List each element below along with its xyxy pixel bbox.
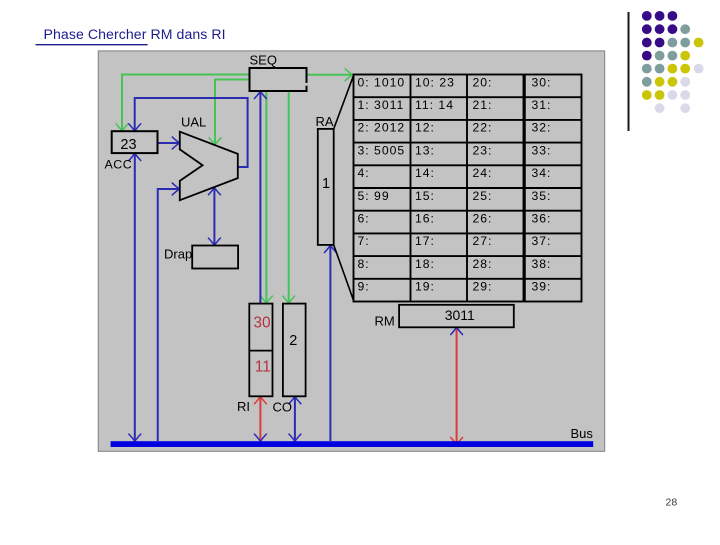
svg-text:7:: 7: xyxy=(358,234,370,248)
svg-text:1: 3011: 1: 3011 xyxy=(358,98,405,112)
svg-text:33:: 33: xyxy=(532,143,552,157)
wire: bus to RA (blue B8) xyxy=(329,246,331,441)
svg-text:RM: RM xyxy=(375,314,395,329)
svg-text:Drap: Drap xyxy=(164,247,192,262)
wire: RM to bus (red R2) xyxy=(456,328,458,444)
op-amp/ALU UAL polygon xyxy=(180,132,238,201)
wire: ACC to bus bidirectional (blue B3) xyxy=(134,154,136,440)
svg-text:23: 23 xyxy=(120,137,136,153)
svg-text:11: 11 xyxy=(255,359,271,376)
svg-text:23:: 23: xyxy=(473,143,493,157)
svg-text:3: 5005: 3: 5005 xyxy=(358,143,406,157)
svg-text:4:: 4: xyxy=(358,166,370,180)
svg-text:ACC: ACC xyxy=(105,158,133,172)
svg-text:9:: 9: xyxy=(358,280,370,294)
svg-text:12:: 12: xyxy=(415,121,435,135)
wire: ACC to UAL upper input (blue B2) xyxy=(158,142,179,144)
svg-text:30: 30 xyxy=(253,315,271,332)
svg-text:1: 1 xyxy=(322,176,330,192)
svg-text:18:: 18: xyxy=(415,257,435,271)
svg-text:Phase Chercher RM dans RI: Phase Chercher RM dans RI xyxy=(44,26,226,42)
svg-text:20:: 20: xyxy=(473,75,493,89)
svg-text:14:: 14: xyxy=(415,166,435,180)
svg-text:28:: 28: xyxy=(473,257,493,271)
svg-text:16:: 16: xyxy=(415,212,435,226)
memory table cell values xyxy=(358,75,552,293)
svg-text:RA: RA xyxy=(316,114,334,129)
svg-text:38:: 38: xyxy=(532,257,552,271)
svg-text:3011: 3011 xyxy=(445,307,475,323)
wire: CO to bus bidirectional (blue B7) xyxy=(294,397,296,440)
register CO box xyxy=(283,304,306,397)
svg-text:35:: 35: xyxy=(532,189,552,203)
wire: UAL output to ACC (blue B1) xyxy=(135,98,248,167)
svg-text:34:: 34: xyxy=(532,166,552,180)
wire: SEQ to CO (green G5) xyxy=(288,91,290,302)
svg-text:26:: 26: xyxy=(473,212,493,226)
register RI box xyxy=(249,304,272,397)
svg-text:RI: RI xyxy=(237,399,250,414)
svg-text:21:: 21: xyxy=(473,98,493,112)
svg-text:29:: 29: xyxy=(473,280,493,294)
svg-text:0: 1010: 0: 1010 xyxy=(358,75,406,89)
memory table xyxy=(354,75,582,302)
diagram panel background xyxy=(98,51,604,451)
decorative vertical rule xyxy=(628,12,630,131)
register RA box xyxy=(318,129,334,245)
svg-text:28: 28 xyxy=(666,497,678,509)
register ACC box xyxy=(112,131,158,153)
svg-text:8:: 8: xyxy=(358,257,370,271)
RI split line xyxy=(249,350,272,352)
svg-text:19:: 19: xyxy=(415,280,435,294)
svg-text:36:: 36: xyxy=(532,212,552,226)
svg-text:CO: CO xyxy=(273,400,293,415)
register RM box xyxy=(399,305,514,328)
funnel line memory to RA top xyxy=(334,75,354,129)
svg-text:39:: 39: xyxy=(532,280,552,294)
wire: SEQ to UAL (green G2) xyxy=(215,80,250,145)
wire: bus to RI (red R1) xyxy=(259,397,261,440)
register SEQ box xyxy=(250,68,307,91)
svg-text:22:: 22: xyxy=(473,121,493,135)
wire: bus to UAL lower input (blue B4) xyxy=(158,189,179,441)
wire: SEQ to ACC (green G1) xyxy=(122,75,250,131)
svg-text:32:: 32: xyxy=(532,121,552,135)
wire: RI opcode to SEQ (blue B6) xyxy=(259,92,261,303)
corner dots ornament xyxy=(642,11,704,113)
wire: UAL to Drapeaux bidirectional (blue B5) xyxy=(213,188,215,244)
svg-text:5: 99: 5: 99 xyxy=(358,189,390,203)
register Drapeaux box xyxy=(192,246,238,269)
svg-text:30:: 30: xyxy=(532,75,552,89)
svg-text:31:: 31: xyxy=(532,98,552,112)
wire: SEQ to RI (green G4) xyxy=(265,91,267,302)
svg-text:11: 14: 11: 14 xyxy=(415,98,454,112)
bus bar xyxy=(111,441,594,447)
svg-text:15:: 15: xyxy=(415,189,435,203)
svg-text:2: 2012: 2: 2012 xyxy=(358,121,406,135)
svg-text:37:: 37: xyxy=(532,234,552,248)
funnel line RA bottom to memory xyxy=(334,245,354,301)
svg-text:2: 2 xyxy=(289,333,297,349)
wire: SEQ to memory (green G3) xyxy=(307,74,352,76)
svg-text:6:: 6: xyxy=(358,212,370,226)
svg-text:27:: 27: xyxy=(473,234,493,248)
svg-text:10: 23: 10: 23 xyxy=(415,75,455,89)
svg-text:UAL: UAL xyxy=(181,114,206,129)
svg-text:Bus: Bus xyxy=(571,426,594,441)
svg-text:17:: 17: xyxy=(415,234,435,248)
SEQ right edge gap xyxy=(305,83,308,86)
svg-text:24:: 24: xyxy=(473,166,493,180)
svg-text:SEQ: SEQ xyxy=(250,52,277,67)
svg-text:25:: 25: xyxy=(473,189,493,203)
svg-text:13:: 13: xyxy=(415,143,435,157)
title underline xyxy=(36,44,148,46)
